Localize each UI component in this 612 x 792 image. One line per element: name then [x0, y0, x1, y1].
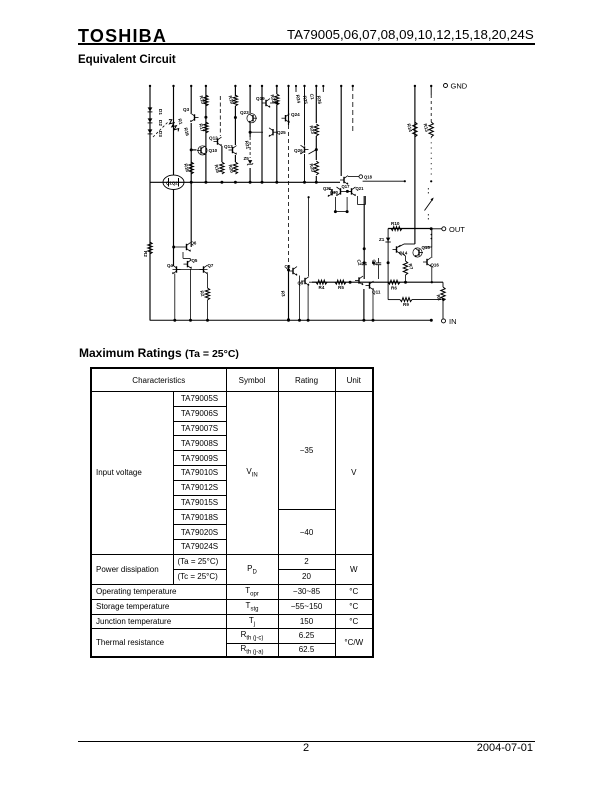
zener Z1 — [387, 236, 389, 244]
svg-text:R17: R17 — [198, 123, 205, 133]
resistor R8 — [441, 287, 445, 301]
node W3 Q10 branch — [190, 148, 193, 151]
wire W8 — [261, 86, 263, 182]
wire W12 — [340, 86, 342, 176]
resistor R10 — [391, 227, 402, 231]
transistor Q25 — [272, 129, 274, 135]
resistor R18 — [220, 162, 224, 174]
svg-text:Z1: Z1 — [379, 237, 385, 242]
zener Z5 — [248, 160, 252, 164]
resistor R9 — [400, 298, 412, 302]
resistor R6 — [388, 280, 400, 284]
svg-text:Q15: Q15 — [422, 245, 431, 250]
svg-text:R5: R5 — [338, 285, 344, 290]
wire OUT node — [388, 228, 431, 230]
resistor R15 — [204, 95, 208, 106]
wire stub a — [295, 86, 297, 92]
svg-text:D3: D3 — [158, 131, 163, 137]
transistor Q4 — [176, 266, 178, 272]
svg-text:R25: R25 — [302, 95, 308, 105]
svg-text:D1: D1 — [158, 109, 163, 115]
wire Q4 emitter — [174, 274, 176, 321]
svg-text:IN: IN — [449, 317, 457, 326]
bottom rail wire — [150, 319, 432, 321]
wire port line — [363, 180, 405, 182]
terminal IN — [442, 319, 446, 323]
transistor Q12 — [217, 138, 219, 144]
svg-text:R26: R26 — [316, 95, 322, 105]
wire W7 — [249, 86, 251, 113]
svg-text:Q9: Q9 — [298, 281, 304, 286]
svg-text:R6: R6 — [391, 286, 397, 291]
svg-text:R1: R1 — [177, 118, 183, 125]
emitters to bus — [334, 197, 336, 212]
resistor R13 — [429, 122, 433, 137]
wire W4 — [205, 86, 207, 182]
svg-text:Q24: Q24 — [291, 112, 300, 117]
svg-text:Q5: Q5 — [192, 258, 198, 263]
wire W9 — [276, 86, 278, 94]
node top W1 — [149, 85, 151, 87]
svg-text:R2: R2 — [143, 251, 148, 257]
svg-text:R16: R16 — [183, 163, 190, 173]
wire loop right — [412, 299, 442, 301]
wire W5 dashed — [219, 96, 221, 136]
resistor R19 — [233, 95, 237, 106]
wire Q6 base — [174, 246, 183, 248]
transistor Q10b/Q11 darlington — [358, 277, 360, 283]
transistor Q5 — [187, 261, 189, 267]
wire R8 bottom — [442, 301, 444, 319]
svg-text:R16: R16 — [183, 127, 190, 137]
svg-text:R20: R20 — [228, 164, 235, 174]
wire W16 — [414, 86, 416, 244]
wire W3 — [190, 86, 192, 113]
resistor R7 — [403, 261, 407, 275]
transistor Q3 — [194, 114, 196, 120]
transistor Q21 — [351, 188, 353, 194]
node Q26 emitter — [315, 148, 318, 151]
wire W16 corner to Q14 — [404, 243, 415, 245]
svg-text:R24: R24 — [295, 94, 301, 104]
terminal OUT — [431, 228, 441, 230]
current source I1 — [425, 200, 433, 211]
node W4 — [204, 116, 207, 119]
svg-text:R2: R2 — [199, 290, 205, 297]
svg-text:R25: R25 — [309, 163, 316, 173]
wire Q5 emitter — [190, 269, 192, 320]
wire OUT corner — [387, 229, 389, 263]
node after R4 — [349, 281, 352, 284]
wire C3 stub — [378, 258, 380, 263]
node z1 bottom — [387, 261, 390, 264]
wire oval to Q4 — [173, 190, 175, 267]
resistor R23 — [314, 124, 318, 136]
wire W2 — [173, 86, 175, 175]
svg-text:Q6: Q6 — [191, 241, 197, 246]
wire Q8 drop — [299, 276, 301, 321]
terminal GND — [444, 84, 448, 88]
resistor R4 — [316, 280, 327, 284]
svg-text:Q22: Q22 — [323, 186, 332, 191]
transistor Q24 — [285, 115, 287, 121]
svg-text:Q8: Q8 — [285, 264, 291, 269]
resistor R17 — [204, 122, 208, 133]
transistor Q8 — [292, 268, 294, 274]
diode D2 — [148, 118, 153, 122]
input port circle — [359, 175, 363, 179]
resistor R2b — [205, 288, 209, 300]
wire W13 dashed — [352, 86, 354, 133]
svg-text:R9: R9 — [403, 302, 409, 307]
svg-text:OUT: OUT — [449, 225, 465, 234]
dual transistor Q1 Q2 oval — [163, 175, 184, 189]
svg-text:C2: C2 — [356, 259, 362, 266]
svg-text:Q18: Q18 — [364, 175, 373, 180]
resistor R2 — [148, 242, 152, 254]
wire R2b to rail — [207, 300, 209, 320]
transistor Q7 — [203, 266, 205, 272]
svg-text:Q7: Q7 — [208, 263, 214, 268]
transistor Q22 — [331, 189, 333, 195]
dash diagonal — [153, 121, 169, 137]
wire Q16 collector — [431, 229, 433, 247]
resistor R14 — [413, 122, 417, 137]
resistor R20 — [233, 162, 237, 174]
wire W17 mid — [430, 137, 432, 176]
resistor R5 — [335, 280, 346, 284]
transistor Q17 — [343, 177, 345, 183]
wire W14b — [363, 265, 365, 279]
svg-text:R13: R13 — [423, 123, 430, 133]
node W6 — [234, 116, 237, 119]
wire Q11 emitters — [363, 289, 365, 321]
svg-text:Q10: Q10 — [209, 148, 218, 153]
svg-text:Z5: Z5 — [244, 156, 250, 161]
wire W5 lower — [221, 146, 223, 162]
wire Q14 emitter — [402, 254, 406, 257]
wire Q9 drop — [307, 285, 309, 320]
wire Q4 Q7 bases — [173, 269, 208, 271]
loop under q21 — [357, 196, 359, 205]
transistor Q16 — [426, 259, 428, 265]
wire Q16 emitter — [431, 266, 433, 282]
transistor Q6 — [186, 244, 188, 250]
wire stub b — [322, 86, 324, 92]
diode D3 — [148, 129, 153, 133]
wire lower node — [312, 281, 443, 283]
node Q8 base — [287, 268, 290, 271]
transistor Q10 — [198, 146, 207, 155]
transistor Q13 — [232, 147, 234, 153]
svg-text:R18: R18 — [214, 164, 221, 174]
loop Q5 — [182, 252, 184, 258]
q20 q21 link — [346, 190, 349, 193]
svg-text:R19: R19 — [228, 95, 235, 105]
wire Q9 arm — [309, 281, 316, 283]
capacitor C3 — [376, 262, 381, 264]
wire W1 left rail vertical — [149, 86, 151, 320]
wire W10 — [288, 86, 290, 125]
svg-text:Q17: Q17 — [342, 184, 351, 189]
svg-text:R21: R21 — [244, 140, 250, 150]
svg-text:GND: GND — [451, 82, 468, 91]
wire W10 dashdot — [288, 125, 290, 265]
bottom rail junctions — [173, 319, 176, 322]
svg-text:Q23: Q23 — [240, 110, 249, 115]
diode D1 — [148, 107, 153, 111]
capacitor C2 — [362, 262, 367, 264]
svg-text:Q13: Q13 — [224, 144, 233, 149]
mid rail junctions — [190, 181, 193, 184]
transistor Q20 — [340, 188, 342, 194]
resistor R16 — [189, 162, 193, 174]
transistor Q9 — [304, 278, 306, 284]
svg-text:Q19: Q19 — [256, 96, 265, 101]
transistor Q15 — [413, 248, 422, 257]
transistor Q19 — [265, 100, 267, 106]
wire W11b — [304, 86, 306, 146]
svg-text:R8: R8 — [436, 294, 442, 301]
svg-text:R15: R15 — [199, 95, 206, 105]
svg-text:R7: R7 — [408, 263, 414, 270]
mid rail wire — [150, 181, 340, 183]
wire Z1 to loop — [387, 263, 389, 300]
wire Q7 emitter — [207, 274, 209, 288]
wire W6 — [234, 86, 236, 96]
transistor Q14 — [396, 246, 398, 252]
svg-text:R14: R14 — [406, 123, 413, 133]
wire W15 stub — [308, 197, 310, 276]
transistor Q26 — [304, 146, 306, 152]
svg-text:Q4: Q4 — [167, 263, 173, 268]
resistor R22 — [275, 94, 279, 105]
wire Q10 base — [191, 149, 196, 151]
svg-text:R4: R4 — [319, 285, 325, 290]
svg-text:R10: R10 — [391, 221, 400, 226]
svg-text:D2: D2 — [158, 120, 163, 126]
svg-text:Q25: Q25 — [277, 130, 286, 135]
transistor Q23 — [247, 114, 256, 123]
wire R8 top — [442, 282, 444, 287]
svg-text:R3: R3 — [280, 290, 286, 297]
svg-text:Q21: Q21 — [356, 186, 365, 191]
wire R7 bottom — [405, 275, 407, 282]
wire loop bottom — [388, 299, 400, 301]
wire W11 — [315, 86, 317, 123]
wire W14 — [363, 196, 365, 262]
resistor R1 — [167, 118, 180, 133]
resistor R24b — [314, 161, 318, 175]
svg-text:R23: R23 — [309, 125, 316, 135]
svg-text:Q12: Q12 — [209, 136, 218, 141]
wire W10 lower — [288, 265, 290, 320]
svg-text:Q26: Q26 — [294, 148, 303, 153]
svg-text:Q3: Q3 — [183, 107, 190, 112]
node R7 bottom — [404, 281, 407, 284]
wire Q15 base — [413, 252, 415, 254]
node dots below OUT — [431, 234, 433, 236]
node W17 — [430, 180, 432, 182]
node W7 Q25 base — [249, 131, 252, 134]
wire W17 top — [430, 86, 432, 95]
svg-text:C1: C1 — [309, 93, 315, 100]
